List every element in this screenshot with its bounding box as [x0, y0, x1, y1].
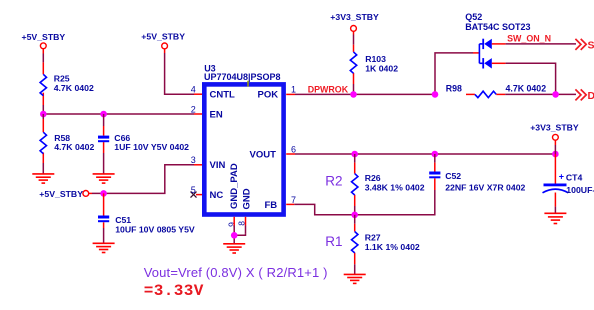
svg-text:100UF-: 100UF- — [566, 185, 594, 195]
ground G2 below C66 — [93, 174, 115, 183]
svg-text:2: 2 — [191, 104, 196, 114]
svg-text:7: 7 — [291, 195, 296, 205]
wire P2 to CNTL pin4 — [165, 49, 194, 94]
svg-text:UP7704U8|PSOP8: UP7704U8|PSOP8 — [204, 72, 281, 82]
wire SW_ON_N net — [506, 43, 576, 45]
svg-text:POK: POK — [258, 90, 279, 101]
svg-text:R26: R26 — [365, 173, 381, 183]
svg-text:BAT54C SOT23: BAT54C SOT23 — [465, 22, 530, 32]
svg-text:+5V_STBY: +5V_STBY — [22, 32, 66, 42]
svg-text:4.7K 0402: 4.7K 0402 — [54, 83, 94, 93]
svg-text:C52: C52 — [445, 171, 461, 181]
svg-text:R2: R2 — [325, 173, 342, 188]
pin stub GND pin8 — [245, 217, 247, 226]
svg-text:1: 1 — [291, 85, 296, 95]
off-page connector S — [575, 39, 594, 52]
svg-text:VIN: VIN — [210, 160, 226, 171]
svg-text:DPWROK: DPWROK — [308, 84, 349, 94]
svg-text:GND: GND — [241, 188, 252, 209]
svg-text:3.48K 1% 0402: 3.48K 1% 0402 — [365, 182, 425, 192]
wire C51 branch — [103, 193, 105, 243]
ground G3 below C51 — [93, 243, 115, 252]
ground G5 below R27 — [344, 274, 366, 283]
wire P3 to VIN pin3 — [89, 165, 194, 194]
wire R98 to off-page D — [505, 93, 576, 95]
svg-text:4: 4 — [191, 85, 196, 95]
junction J5 — [350, 91, 357, 98]
junction J11 — [351, 212, 358, 219]
capacitor CT4 polarized — [543, 171, 594, 195]
capacitor C52 — [429, 171, 525, 192]
svg-text:VOUT: VOUT — [250, 149, 277, 160]
svg-text:C51: C51 — [115, 215, 131, 225]
junction J3 — [100, 190, 107, 197]
svg-text:+: + — [559, 171, 564, 181]
resistor R98 horizontal — [446, 83, 546, 97]
svg-text:1K 0402: 1K 0402 — [365, 63, 398, 73]
wire EN net horizontal — [43, 113, 194, 115]
svg-text:=3.33V: =3.33V — [144, 282, 204, 300]
svg-text:CT4: CT4 — [566, 172, 583, 182]
svg-text:+5V_STBY: +5V_STBY — [141, 32, 185, 42]
resistor R103 — [350, 52, 398, 74]
power symbol +5V_STBY P1 — [22, 32, 66, 49]
power symbol +5V_STBY P2 — [141, 32, 185, 49]
wire C66 branch — [103, 114, 105, 174]
ground G6 below CT4 — [544, 213, 566, 223]
capacitor C66 — [98, 133, 189, 152]
wire Q52 common cathode branch — [435, 53, 479, 95]
svg-text:4.7K 0402: 4.7K 0402 — [506, 83, 547, 93]
junction J9 — [432, 151, 439, 158]
resistor R25 — [40, 74, 94, 96]
wire R103 leads — [353, 31, 355, 94]
svg-text:GND_PAD: GND_PAD — [229, 163, 240, 209]
wire DPWROK net — [295, 93, 435, 95]
wire CT4 branch — [554, 154, 556, 213]
svg-text:+5V_STBY: +5V_STBY — [39, 189, 83, 199]
power symbol +3V3_STBY P5 — [530, 122, 579, 154]
wire VOUT net — [295, 153, 555, 155]
wire C52 branch — [355, 154, 435, 215]
svg-text:Vout=Vref (0.8V) X ( R2/R1+1 ): Vout=Vref (0.8V) X ( R2/R1+1 ) — [144, 265, 328, 280]
svg-text:1.1K 1% 0402: 1.1K 1% 0402 — [365, 242, 420, 252]
svg-text:CNTL: CNTL — [210, 90, 236, 101]
svg-text:Q52: Q52 — [465, 12, 482, 22]
svg-text:6: 6 — [291, 144, 296, 154]
svg-text:R1: R1 — [325, 234, 342, 249]
svg-text:NC: NC — [210, 190, 224, 201]
resistor R27 — [352, 232, 420, 253]
pin stub GND_PAD pin9 — [233, 217, 235, 226]
junction J1 — [40, 111, 47, 118]
svg-text:R27: R27 — [365, 233, 381, 243]
power symbol +3V3_STBY P4 — [330, 12, 379, 31]
svg-text:22NF 16V X7R 0402: 22NF 16V X7R 0402 — [445, 182, 525, 192]
svg-text:+3V3_STBY: +3V3_STBY — [330, 12, 379, 22]
svg-text:1UF 10V Y5V 0402: 1UF 10V Y5V 0402 — [114, 142, 189, 152]
pin stub POK pin1 — [286, 93, 295, 95]
junction J7 — [552, 91, 559, 98]
resistor R26 — [352, 173, 425, 195]
pin stub NC pin5 with no-connect X — [191, 192, 203, 198]
junction J2 — [100, 111, 107, 118]
tick on top border of U3 — [247, 81, 249, 87]
svg-text:3: 3 — [191, 155, 196, 165]
wire R27 leads — [354, 215, 356, 275]
pin stub VOUT pin6 — [286, 153, 295, 155]
transistor Q52 dual diode BAT54C — [465, 12, 530, 68]
junction J8 — [351, 151, 358, 158]
wire R26 leads — [354, 154, 356, 215]
wire junction to ground G4 — [233, 233, 235, 244]
svg-text:R98: R98 — [446, 83, 462, 93]
svg-text:D: D — [588, 90, 594, 102]
wire bottom diode anode to R98 right node — [506, 63, 556, 94]
junction J6 — [432, 91, 439, 98]
pin stub VIN pin3 — [194, 164, 203, 166]
pin stub CNTL pin4 — [194, 93, 203, 95]
svg-text:4.7K 0402: 4.7K 0402 — [54, 142, 94, 152]
svg-text:SW_ON_N: SW_ON_N — [507, 33, 551, 43]
svg-text:EN: EN — [210, 109, 223, 120]
wire R58 leads — [42, 114, 44, 174]
svg-text:S: S — [588, 40, 594, 52]
resistor R58 — [40, 132, 94, 153]
ground G1 below R58 — [32, 174, 54, 183]
svg-text:+3V3_STBY: +3V3_STBY — [530, 122, 579, 132]
junction J4 — [231, 232, 238, 239]
wire FB net — [294, 204, 354, 214]
op-amp U3 regulator body — [204, 63, 284, 214]
ground G4 below U3 — [223, 244, 245, 253]
pin stub FB pin7 — [286, 203, 294, 205]
junction J10 — [552, 151, 559, 158]
svg-text:5: 5 — [191, 185, 196, 195]
svg-text:10UF 10V 0805 Y5V: 10UF 10V 0805 Y5V — [115, 224, 195, 234]
capacitor C51 — [98, 215, 195, 235]
resistor R1 lead wire — [42, 49, 44, 114]
svg-text:FB: FB — [265, 200, 278, 211]
wire pin8 to junction — [234, 233, 245, 235]
pin stub EN pin2 — [194, 113, 203, 115]
power symbol +5V_STBY P3 — [39, 189, 88, 199]
off-page connector D — [575, 89, 594, 102]
